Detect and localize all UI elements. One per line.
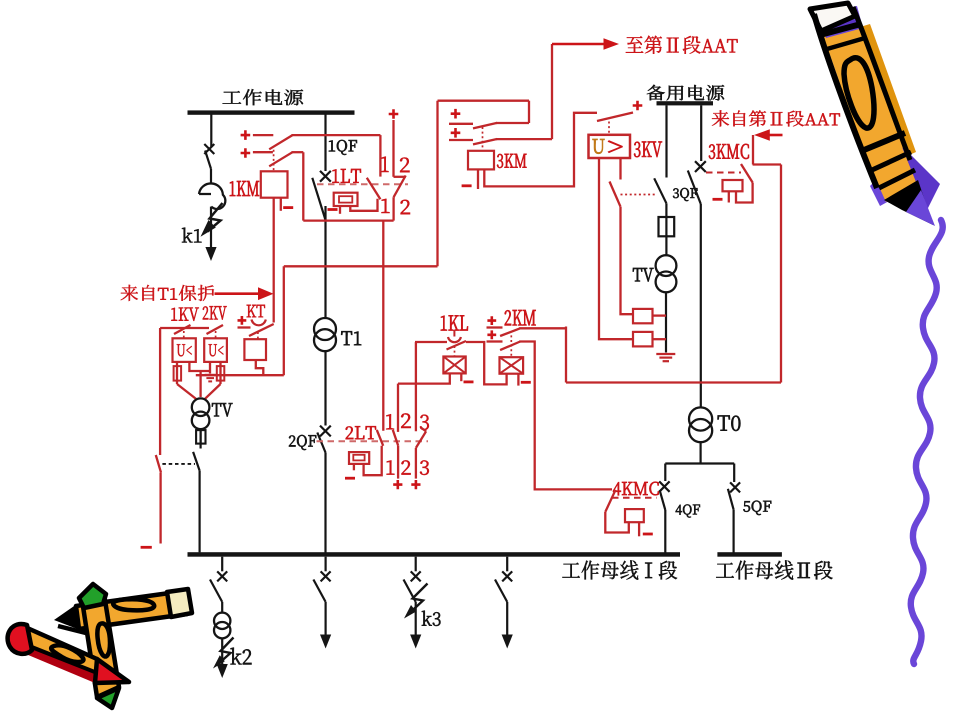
arrow from T1 protection: [215, 292, 260, 295]
3KMC loop to blade: [736, 183, 753, 203]
feeder 2 wire: [325, 602, 327, 636]
damper resistor lower box: [633, 332, 653, 347]
feeder 1 transformer: [221, 602, 223, 613]
KT link dotted: [257, 332, 259, 339]
feeder 4 arrow: [502, 635, 513, 649]
voltage transformer TV (left, black): [192, 398, 210, 416]
1KM minus lead: [280, 198, 282, 211]
3KMC loop bottom: [566, 381, 781, 383]
1KM NO contact 1 blade: [269, 135, 292, 149]
label 3KM: [497, 154, 527, 168]
TV left lower wire: [200, 429, 202, 448]
4KMC loop to blade: [605, 512, 629, 533]
label 4QF: [676, 504, 700, 517]
wire 2QF to bus I: [324, 453, 326, 553]
label 4KMC: [613, 482, 659, 496]
2KM NO contact 2 bar: [487, 340, 503, 342]
resistor taps to TV column: [653, 314, 667, 316]
3KM NO contact 2 plus: [451, 128, 461, 138]
transformer T1: [314, 318, 336, 340]
breaker 5QF blade: [728, 489, 734, 510]
feeder 3 (k3) switch: [415, 557, 417, 572]
2KV box right lead + fuse: [219, 362, 221, 384]
3KM minus lead: [477, 169, 479, 189]
label TV (backup): [633, 268, 654, 282]
feeder 3 arrow: [410, 635, 421, 649]
wire T1 to 2QF: [324, 351, 326, 425]
label contact terminal 2 lower: [401, 200, 411, 214]
KT box bottom lead: [256, 360, 263, 375]
label: to section II AAT: [626, 36, 738, 54]
red left rail lower: [159, 473, 161, 544]
disconnect 3QF blade: [654, 178, 666, 203]
2LT dashed row: [317, 440, 429, 442]
1LT box loop to blade1: [350, 199, 377, 211]
1KL delay cup: [448, 337, 461, 342]
wire 1KL col3 upper: [415, 342, 417, 431]
wire 1KM coil down to KT: [273, 198, 275, 323]
2KM NO contact 2 blade: [500, 342, 520, 351]
wire TV to ground: [665, 292, 667, 352]
4KMC minus lead: [638, 522, 640, 536]
wire 3KM loop left edge: [436, 101, 438, 267]
TV left feed diagonals: [177, 384, 197, 400]
decoration: crayon pencil top right: [810, 3, 940, 226]
1KL contact blade: [447, 341, 467, 350]
fuse below TV left: [196, 430, 205, 444]
contactor coil 3KM box: [468, 151, 494, 170]
3KV contact plus: [633, 101, 643, 111]
switch X mark right backup feeder: [695, 161, 706, 172]
label: from section II AAT: [712, 110, 840, 126]
wire contact2 corner: [292, 151, 304, 153]
label U inside 3KV box: [593, 139, 605, 154]
2LT col3 blade closed: [416, 431, 426, 448]
1KM NO contact 2 blade: [269, 152, 292, 166]
3KV aux blade: [610, 182, 621, 207]
2KM NO contact 1 blade: [500, 328, 520, 336]
label 3KMC: [709, 144, 749, 159]
wire 3KM loop top: [438, 100, 530, 102]
label 2LT terminal 3 lower: [420, 460, 429, 475]
2LT box loop to col1 blade: [364, 446, 382, 475]
wire backup feeder to T0: [700, 204, 702, 407]
4KMC dashed link: [612, 497, 657, 499]
3KMC loop right edge: [780, 165, 782, 383]
label U< inside 1KV box: [177, 344, 192, 356]
label 1KV: [171, 308, 198, 321]
arrow from section II AAT: [770, 134, 783, 137]
label contact terminal 2 upper: [400, 158, 410, 173]
red blade on left rail: [156, 455, 161, 473]
wire arrow drop to 3KMC: [752, 135, 754, 165]
1KV box left lead + fuse: [176, 362, 178, 384]
wire 1QF upper: [324, 115, 326, 172]
black blade below TV left: [193, 452, 200, 471]
breaker 4QF X mark: [659, 481, 669, 491]
3KM NO contact 2 bar: [449, 139, 473, 141]
3KMC loop left riser: [565, 327, 567, 383]
2LT col1 blade: [377, 430, 383, 446]
relay 2KV box: [204, 338, 227, 362]
1LT changeover dashed row: [317, 183, 408, 185]
wire 3KM loop right drop: [528, 101, 530, 123]
3KM right lead loop: [484, 113, 597, 187]
2KV contact blade: [207, 325, 224, 334]
1KL box minus lead: [460, 373, 462, 381]
1KM NO contact 1 bar: [253, 134, 273, 136]
bus: working bus section I: [188, 552, 681, 557]
wire backup right feeder upper: [700, 105, 702, 161]
label k1: [182, 228, 202, 243]
2KM NO contact 2 plus: [487, 330, 496, 339]
3KV left lead down: [599, 158, 633, 339]
3KMC minus lead: [728, 191, 730, 202]
label 3QF: [673, 188, 698, 201]
1LT contact blade 2: [394, 176, 406, 198]
3KV aux wire down: [621, 207, 634, 315]
2LT box minus lead: [353, 464, 355, 470]
transformer T0: [689, 407, 712, 430]
label 3KV: [634, 142, 662, 158]
wire 5QF to bus II: [732, 510, 734, 553]
coil 4KMC box: [625, 509, 644, 522]
KT delay cup: [252, 320, 266, 326]
label 2LT terminal 3 upper: [420, 415, 429, 430]
wire 1KL contact to 2KM coil loop: [466, 342, 507, 384]
protection rail under KT: [196, 374, 284, 376]
black dashed link (TV left): [162, 463, 195, 465]
1LT contact blade 1: [367, 178, 381, 199]
3KM NO contact 2 blade: [473, 139, 497, 144]
1KM NO contact 1 plus: [241, 130, 251, 140]
3KMC contact blade: [741, 164, 753, 183]
label 2LT: [346, 426, 377, 439]
3KM NO contact 1 bar: [449, 123, 473, 125]
wire T0 to split: [699, 442, 701, 463]
feeder 1 arrow: [217, 664, 228, 678]
1KM mechanical link dotted: [273, 150, 275, 171]
1LT bottom rail: [303, 219, 393, 221]
label T1: [341, 331, 361, 345]
label k2: [231, 648, 252, 665]
wire 3QF upper: [665, 105, 667, 177]
wire 1LT rail down to 2LT col1: [382, 221, 384, 431]
minus at left rail bottom: [141, 546, 152, 549]
wire col2 lower: [397, 446, 399, 479]
left rail top to 2KV: [160, 327, 209, 329]
signal relay 1KL box: [443, 357, 465, 374]
2KV box left lead: [209, 362, 211, 371]
wire 3KMC top to loop: [753, 163, 781, 165]
label 2QF: [289, 435, 316, 450]
plus feed 1LT contact 2: [389, 109, 399, 119]
1KV box right lead: [189, 362, 210, 371]
decoration: purple squiggle right side: [911, 220, 943, 664]
trip coil 1LT box: [334, 193, 358, 206]
breaker 2QF blade: [317, 433, 325, 453]
wire contact2 to AAT riser: [496, 138, 552, 140]
label 5QF: [743, 501, 771, 515]
label contact terminal 1 upper: [382, 157, 389, 173]
label 1KL: [441, 315, 468, 330]
1KL box left lead loop: [398, 373, 450, 383]
feeder 3 wire: [415, 602, 417, 636]
wire plus to contact 2: [392, 120, 394, 177]
signal relay 2KM box: [500, 357, 524, 374]
1KV contact blade: [174, 325, 191, 334]
plus below col3: [411, 480, 420, 489]
wire 2KM contact1 to 3KMC loop: [519, 327, 566, 329]
breaker 4QF blade: [660, 490, 666, 510]
wire k1 feeder lower: [210, 207, 212, 249]
1KM NO contact 2 plus: [241, 148, 251, 158]
ground symbol (TV backup): [656, 353, 675, 355]
decoration: crayons bottom left: [8, 584, 192, 708]
feeder arrow below k1: [205, 247, 216, 261]
wire fuse to TV: [665, 236, 667, 255]
relay 3KV box: [589, 135, 631, 158]
label 2LT terminal 1 upper: [386, 414, 394, 429]
wire 4QF to bus I: [664, 510, 666, 553]
trip coil 2LT box: [349, 452, 369, 464]
feeder 4 switch: [506, 557, 508, 572]
label 2LT terminal 2 lower: [401, 460, 410, 474]
2KM NO contact 1 bar: [487, 326, 503, 328]
label: backup power source text: [647, 85, 724, 101]
coil 3KMC box: [723, 180, 743, 191]
fuse on TV branch: [659, 217, 675, 236]
label 2KV: [203, 306, 227, 319]
label 1QF: [329, 140, 357, 155]
label contact terminal 1 lower: [382, 199, 390, 213]
arrow to section II AAT: [552, 43, 604, 46]
fault lightning k1: [208, 203, 223, 232]
wire to 5QF: [733, 464, 735, 483]
current transformer on k1 feeder: [199, 183, 225, 209]
feeder 2 arrow: [320, 635, 331, 649]
label KT: [247, 305, 265, 317]
wire to 4QF: [664, 464, 666, 482]
label 1KM: [230, 181, 259, 196]
label > inside 3KV box: [608, 141, 623, 153]
label working bus I: [563, 560, 678, 579]
wire 1KL loop down to 2LT col2: [397, 384, 399, 432]
label: working power source text: [223, 89, 303, 105]
bus: backup power source (upper right): [657, 101, 714, 105]
label T0: [718, 415, 741, 431]
4KMC contact blade: [605, 490, 615, 512]
3KV right lead: [619, 158, 621, 180]
wire to 1KL contact: [415, 341, 447, 343]
fault lightning k3: [408, 584, 428, 615]
KT plus: [238, 316, 247, 325]
fault lightning k2: [217, 638, 234, 666]
feeder 1 (k2) switch: [221, 557, 223, 572]
3KM NO contact 1 plus: [451, 109, 461, 119]
label 1LT: [332, 169, 361, 183]
label k3: [422, 611, 441, 627]
2KM box minus lead: [517, 374, 519, 386]
relay 1KV box: [173, 338, 196, 362]
bus: working bus section II: [717, 552, 782, 557]
feeder 2 switch: [325, 557, 327, 572]
1KL link dotted: [454, 346, 456, 356]
breaker 5QF X mark: [730, 482, 740, 492]
voltage transformer TV (backup): [656, 255, 677, 276]
label 2LT terminal 2 upper: [401, 413, 411, 428]
KT contact blade: [249, 324, 274, 336]
label working bus II: [716, 560, 832, 579]
damper resistor upper box: [633, 309, 653, 323]
wire rail corner up: [283, 266, 285, 375]
wire 2KM contact2 to 4KMC: [519, 342, 612, 490]
3KM NO contact 1 blade: [473, 123, 497, 128]
2KM link dotted: [510, 335, 512, 357]
label 2LT terminal 1 lower: [387, 460, 395, 474]
breaker 1QF X mark: [320, 171, 331, 182]
3KMC dashed link: [706, 172, 741, 174]
label U< inside 2KV box: [209, 344, 224, 356]
breaker 1QF blade: [312, 178, 325, 220]
breaker 2QF X mark: [320, 426, 331, 437]
relay coil 1KM box: [261, 171, 288, 197]
1KV link dotted: [183, 331, 185, 339]
3KM mechanical link dotted: [482, 127, 484, 151]
2LT col2 blade: [393, 430, 398, 446]
2KV link dotted: [215, 331, 217, 339]
disconnect switch on k1 feeder: [210, 115, 212, 147]
label 2KM: [505, 310, 536, 325]
1KM NO contact 2 bar: [253, 151, 273, 153]
bus: working power source (upper left): [188, 110, 355, 114]
wire 3QF to fuse: [665, 203, 667, 217]
KT contact bar: [238, 326, 251, 328]
wire T1 upper: [324, 206, 326, 318]
label: from T1 protection: [121, 285, 214, 301]
T0 split header: [665, 462, 734, 464]
2KM NO contact 1 plus: [487, 316, 496, 325]
feeder 1 wire lower: [221, 638, 223, 665]
3KV link dotted: [608, 122, 610, 135]
1LT box minus lead: [339, 206, 341, 214]
wire horizontal to 3KM loop: [284, 265, 438, 267]
3QF link dotted red: [621, 194, 656, 196]
ground symbol (TV left): [205, 374, 216, 376]
wire TV left to bus I: [199, 471, 201, 553]
relay KT box: [244, 339, 266, 360]
plus below col2: [393, 480, 402, 489]
wire blade2 down: [392, 197, 394, 220]
red left rail down: [159, 328, 161, 455]
label TV left: [212, 403, 233, 416]
switch blade right backup feeder: [688, 171, 701, 205]
wire contact1 to 1LT terminal 1: [292, 134, 381, 136]
wire col3 lower: [415, 448, 417, 479]
3KV contact blade: [597, 113, 633, 122]
feeder 4 wire: [506, 602, 508, 636]
ground stem (TV left): [209, 371, 211, 374]
